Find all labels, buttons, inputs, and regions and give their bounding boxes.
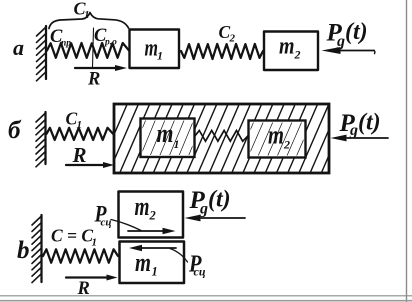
svg-text:б: б (8, 117, 22, 144)
svg-text:(t): (t) (208, 187, 231, 213)
svg-text:C = C: C = C (51, 226, 93, 246)
svg-text:1: 1 (157, 49, 163, 63)
svg-text:сц: сц (101, 217, 112, 229)
svg-text:2: 2 (149, 209, 156, 223)
svg-text:р.о: р.о (104, 38, 117, 48)
svg-text:m: m (157, 119, 174, 148)
svg-text:m: m (268, 121, 284, 150)
svg-text:1: 1 (84, 9, 90, 21)
svg-text:(t): (t) (358, 110, 381, 136)
svg-text:пр: пр (61, 39, 71, 49)
svg-text:m: m (145, 36, 159, 62)
svg-text:g: g (199, 201, 208, 218)
svg-text:а: а (13, 35, 24, 60)
svg-text:g: g (349, 122, 358, 139)
svg-text:b: b (17, 237, 30, 264)
svg-text:m: m (279, 34, 295, 60)
svg-text:R: R (72, 143, 87, 167)
svg-text:1: 1 (77, 119, 83, 131)
svg-text:2: 2 (229, 33, 236, 45)
svg-text:m: m (135, 192, 150, 221)
svg-text:1: 1 (174, 137, 180, 151)
svg-text:сц: сц (194, 267, 206, 279)
svg-text:g: g (336, 33, 345, 50)
svg-text:2: 2 (283, 138, 290, 152)
svg-text:R: R (87, 70, 100, 90)
svg-text:(t): (t) (345, 19, 368, 45)
svg-text:2: 2 (294, 48, 301, 62)
svg-text:R: R (77, 279, 90, 299)
svg-text:m: m (135, 248, 151, 277)
svg-text:1: 1 (92, 237, 98, 249)
svg-text:1: 1 (152, 265, 158, 279)
